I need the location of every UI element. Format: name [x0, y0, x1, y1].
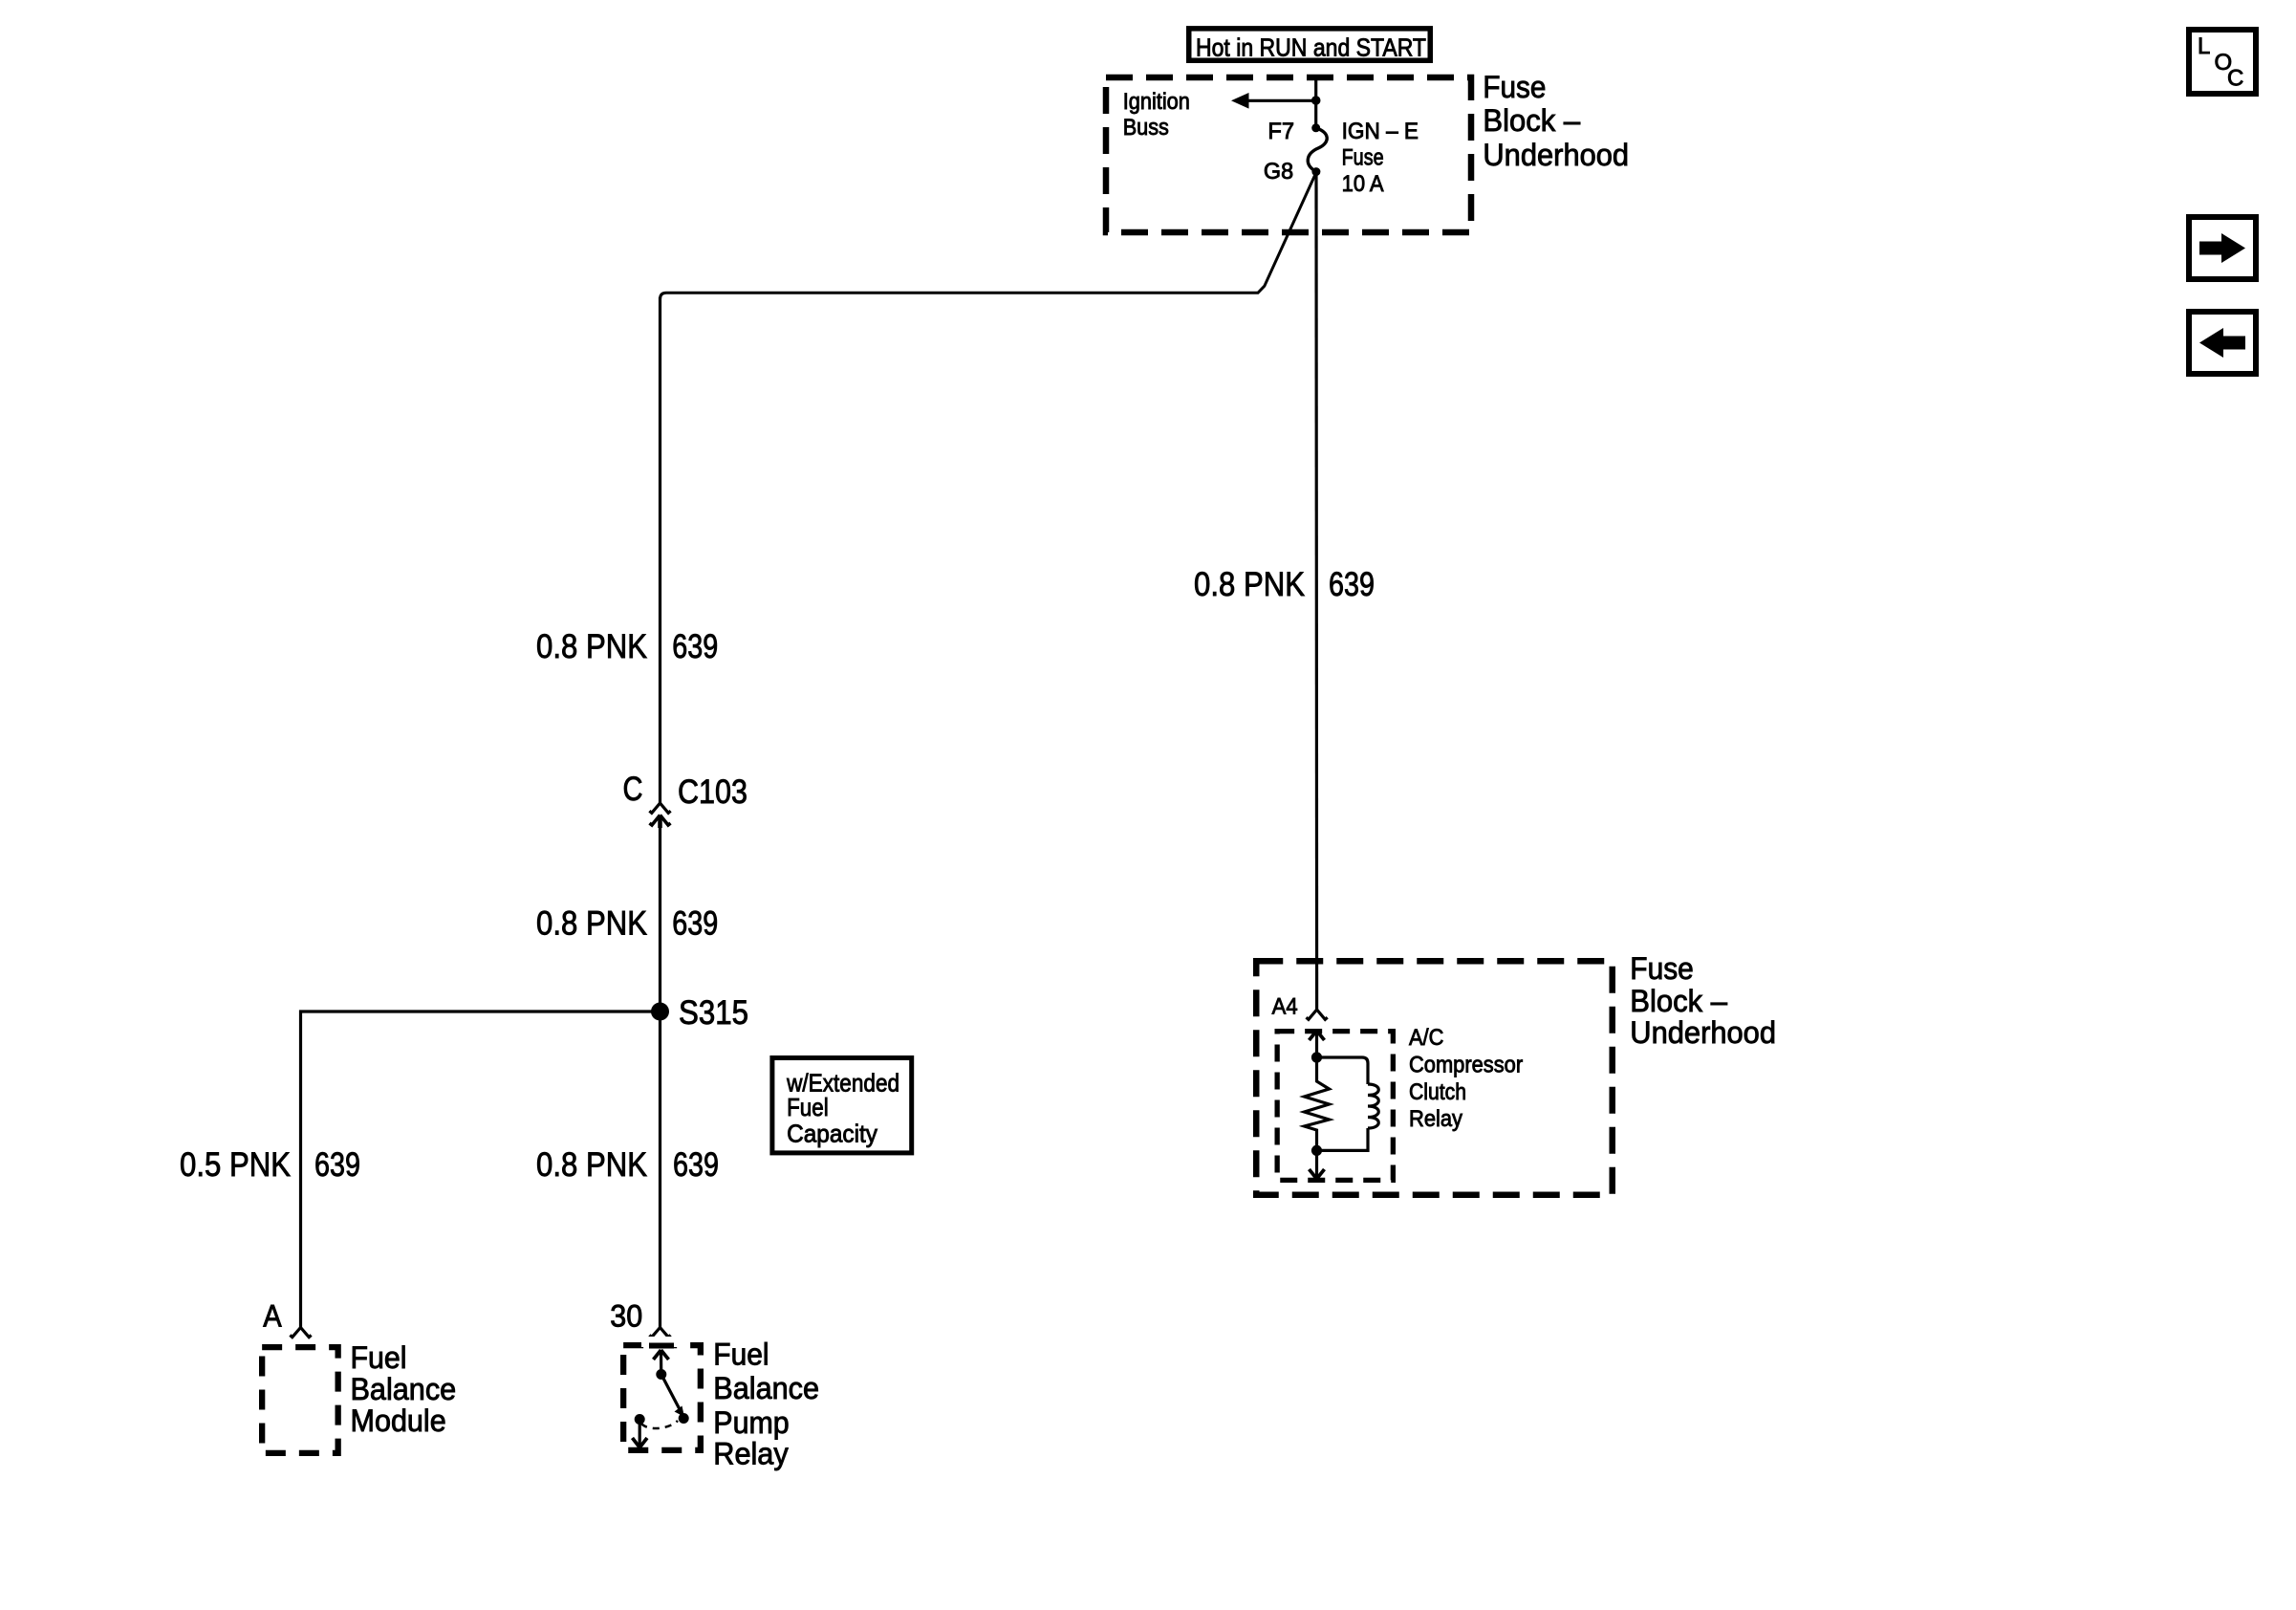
svg-text:639: 639	[1329, 566, 1375, 603]
svg-text:Clutch: Clutch	[1409, 1079, 1466, 1105]
svg-text:C: C	[2227, 66, 2243, 92]
resistor (clutch relay)	[1305, 1057, 1330, 1150]
connector C103 male half (arrow)	[650, 816, 671, 829]
wire: top junction to coil	[1317, 1057, 1369, 1084]
svg-text:A: A	[263, 1298, 282, 1333]
node: clutch relay top junction	[1311, 1052, 1322, 1062]
relay output down arrow	[1310, 1150, 1325, 1179]
fuse block underhood (right) dashed box	[1256, 961, 1613, 1195]
wire label: 0.8 PNK 639 (left middle)	[536, 904, 718, 942]
wire: coil to bottom junction	[1317, 1128, 1369, 1150]
svg-text:30: 30	[610, 1298, 642, 1333]
wire: S315 left then down to fuel balance module (0.5 PNK 639)	[301, 1012, 661, 1328]
svg-text:0.8 PNK: 0.8 PNK	[1194, 566, 1305, 603]
svg-text:Hot in RUN and START: Hot in RUN and START	[1196, 33, 1426, 62]
wire label: 0.8 PNK 639 (left upper)	[536, 628, 718, 665]
svg-text:Fuel: Fuel	[713, 1338, 769, 1372]
svg-text:IGN – E: IGN – E	[1342, 119, 1419, 144]
svg-text:Balance: Balance	[713, 1371, 819, 1405]
svg-text:C103: C103	[678, 773, 747, 811]
connector A4	[1307, 1010, 1328, 1019]
connector C103 female half	[649, 803, 670, 813]
component name: Fuel Balance Pump Relay	[713, 1338, 819, 1471]
wire: left branch vertical (upper)	[659, 297, 661, 803]
svg-text:Ignition: Ignition	[1123, 89, 1190, 115]
svg-text:Fuel: Fuel	[787, 1093, 829, 1121]
wire label: 0.8 PNK 639 (lower)	[536, 1146, 719, 1184]
svg-text:639: 639	[672, 628, 718, 665]
svg-text:Fuse: Fuse	[1483, 70, 1546, 104]
connector at fuel balance module pin A	[290, 1328, 311, 1338]
svg-text:Fuel: Fuel	[351, 1340, 407, 1375]
svg-text:Fuse: Fuse	[1630, 951, 1694, 986]
svg-text:Balance: Balance	[351, 1372, 457, 1406]
svg-text:639: 639	[314, 1146, 360, 1184]
fuel balance module dashed box	[262, 1347, 338, 1453]
fuse IGN-E (S-curve element)	[1308, 128, 1327, 172]
svg-text:Buss: Buss	[1123, 115, 1169, 141]
svg-text:0.5 PNK: 0.5 PNK	[180, 1146, 291, 1184]
svg-text:Relay: Relay	[1409, 1106, 1462, 1132]
relay coil input arrow	[1310, 1031, 1325, 1057]
svg-text:Relay: Relay	[713, 1437, 788, 1471]
relay armature (up arrow to contact)	[654, 1350, 669, 1380]
relay travel arc (dashed)	[641, 1421, 678, 1428]
svg-text:Underhood: Underhood	[1630, 1015, 1776, 1050]
page icon: LOC	[2189, 30, 2256, 94]
node: ignition buss junction	[1311, 96, 1321, 105]
fuse block underhood (top) dashed box	[1106, 77, 1471, 232]
svg-text:G8: G8	[1264, 159, 1293, 185]
svg-text:A/C: A/C	[1409, 1025, 1443, 1051]
svg-text:Block –: Block –	[1630, 984, 1727, 1018]
svg-text:0.8 PNK: 0.8 PNK	[536, 904, 647, 942]
page icon: arrow right	[2189, 217, 2256, 279]
wire: fuse block feed from top edge	[1314, 77, 1317, 128]
coil (clutch relay)	[1368, 1084, 1378, 1128]
svg-text:0.8 PNK: 0.8 PNK	[536, 1146, 647, 1184]
node: splice S315	[651, 1003, 669, 1021]
page icon: arrow left	[2189, 312, 2256, 374]
svg-text:0.8 PNK: 0.8 PNK	[536, 628, 647, 665]
fuel balance pump relay dashed box	[623, 1345, 701, 1450]
svg-text:Compressor: Compressor	[1409, 1053, 1523, 1078]
value label: IGN - E Fuse 10 A	[1342, 119, 1419, 197]
svg-text:Capacity: Capacity	[787, 1120, 877, 1148]
wire: S315 down to relay pin 30 (0.8 PNK 639)	[659, 1012, 661, 1328]
component name: Fuel Balance Module	[351, 1340, 457, 1438]
svg-text:C: C	[623, 771, 643, 808]
note box: w/Extended Fuel Capacity	[772, 1058, 912, 1153]
label: Ignition Buss	[1123, 89, 1190, 141]
node: G8 terminal	[1311, 167, 1320, 176]
relay output terminal (down arrow)	[633, 1414, 648, 1447]
wire: diagonal from G8 to left branch	[661, 174, 1316, 299]
svg-text:639: 639	[672, 904, 718, 942]
svg-text:L: L	[2198, 33, 2210, 59]
svg-text:Underhood: Underhood	[1483, 138, 1629, 172]
wire: G8 down to A4 (0.8 PNK 639 right branch)	[1314, 172, 1318, 1010]
svg-text:Module: Module	[351, 1403, 446, 1438]
node: F7 terminal	[1311, 123, 1320, 132]
svg-text:Fuse: Fuse	[1342, 145, 1384, 171]
label box: Hot in RUN and START	[1189, 29, 1431, 62]
svg-text:639: 639	[673, 1146, 719, 1184]
svg-text:Block –: Block –	[1483, 103, 1580, 138]
component name: A/C Compressor Clutch Relay	[1409, 1025, 1523, 1132]
component name: Fuse Block - Underhood (right)	[1630, 951, 1776, 1050]
wire label: 0.5 PNK 639	[180, 1146, 360, 1184]
relay fixed contact bar	[649, 1343, 674, 1349]
svg-text:F7: F7	[1267, 119, 1294, 144]
connector C103 labels	[623, 771, 748, 811]
svg-text:10 A: 10 A	[1342, 171, 1384, 197]
svg-text:S315: S315	[679, 994, 748, 1032]
wire: C103 to S315	[659, 822, 661, 1012]
svg-text:Pump: Pump	[713, 1405, 789, 1440]
svg-text:A4: A4	[1272, 994, 1298, 1020]
connector at relay pin 30	[649, 1328, 670, 1338]
a/c compressor clutch relay dashed box	[1277, 1032, 1393, 1181]
wire: ignition buss branch with arrow	[1231, 93, 1316, 109]
relay movable arm with arrowhead	[661, 1375, 689, 1425]
wire label: 0.8 PNK 639 (right branch)	[1194, 566, 1375, 603]
component name: Fuse Block - Underhood (top)	[1483, 70, 1629, 172]
node: clutch relay bottom junction	[1311, 1145, 1322, 1156]
